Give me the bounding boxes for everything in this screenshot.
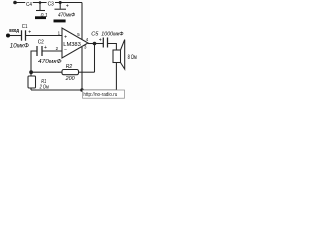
wire R2 to feedback riser [79, 71, 95, 73]
wire R1 bottom lead [30, 88, 32, 90]
node output tap [93, 42, 97, 46]
watermark url box [83, 90, 125, 98]
svg-text:C2: C2 [38, 40, 44, 46]
wire C1 to pin 1 [26, 35, 62, 37]
capacitor C1 [10, 24, 31, 50]
wire output pin 4 [88, 43, 103, 45]
wire feedback riser [94, 44, 96, 73]
svg-text:8 Ом: 8 Ом [128, 54, 137, 61]
svg-text:1000мкФ: 1000мкФ [101, 32, 123, 38]
node supply terminal [13, 1, 17, 5]
capacitor C2 [37, 40, 62, 65]
wire C4 top lead [39, 3, 41, 11]
wire C5 to speaker [108, 44, 116, 51]
wire C3 top lead [59, 3, 61, 9]
wire top supply rail [15, 2, 82, 4]
svg-text:C1: C1 [22, 24, 28, 30]
wire supply drop to pin 5 [81, 3, 83, 40]
svg-text:R2: R2 [66, 64, 73, 70]
svg-text:0,1: 0,1 [41, 13, 48, 19]
node ground rail junction [80, 88, 84, 92]
svg-text:2 Ом: 2 Ом [39, 85, 49, 91]
svg-text:вход: вход [9, 28, 19, 34]
svg-text:−: − [64, 47, 67, 53]
wire speaker return [115, 63, 117, 91]
node feedback node A [29, 70, 33, 74]
node C4 rail junction [39, 1, 42, 4]
wire input to C1 [8, 35, 21, 37]
svg-text:C3: C3 [48, 2, 54, 8]
resistor R2 [62, 64, 79, 82]
svg-text:+: + [66, 4, 69, 10]
svg-text:+: + [64, 35, 67, 41]
svg-text:200: 200 [65, 76, 75, 82]
wire ground rail [31, 89, 116, 91]
capacitor C5 [91, 32, 123, 48]
capacitor C3 [47, 0, 76, 22]
capacitor C4 [25, 0, 48, 19]
svg-text:C5: C5 [91, 32, 99, 38]
wire C2 to pin 2 [43, 50, 63, 52]
speaker BA1 [113, 40, 137, 70]
svg-text:470мкФ: 470мкФ [38, 59, 62, 65]
wire pin 3 to ground rail [81, 47, 83, 90]
svg-text:10мкФ: 10мкФ [10, 43, 29, 50]
node C3 rail junction [59, 1, 62, 4]
svg-text:C4: C4 [26, 2, 32, 8]
wire node to R2 [31, 71, 62, 73]
svg-text:http://no-radio.ru: http://no-radio.ru [83, 92, 117, 98]
svg-text:+: + [28, 30, 31, 36]
node input terminal [6, 34, 10, 38]
svg-text:470мкФ: 470мкФ [58, 12, 76, 18]
wire C2 left lead down to node [31, 51, 37, 72]
resistor R1 [28, 76, 49, 91]
svg-text:+: + [44, 45, 47, 51]
op-amp U1 LM383 [62, 28, 88, 58]
wire R1 to node [30, 72, 32, 76]
svg-text:+: + [99, 38, 102, 44]
